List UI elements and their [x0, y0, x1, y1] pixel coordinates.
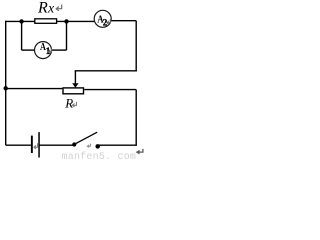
wire: battery to switch: [40, 144, 74, 146]
wire: left vertical: [5, 21, 7, 146]
wire: A1 branch right horizontal: [51, 49, 66, 51]
paragraph mark bottom right: [139, 149, 143, 152]
wire: A1 branch left horizontal: [22, 49, 35, 51]
switch lever: [76, 132, 98, 144]
paragraph mark inside A2: [107, 19, 110, 24]
wire: A1 branch left vertical: [21, 21, 23, 50]
wire: right vertical lower: [135, 90, 137, 146]
paragraph mark after R label: [72, 102, 76, 107]
wire: switch to bottom right corner: [98, 144, 137, 146]
wire: middle horizontal to rheostat: [6, 88, 63, 90]
paragraph mark inside A1: [48, 48, 51, 53]
svg-text:R: R: [64, 96, 73, 111]
rheostat R: [63, 88, 84, 94]
wire: slider horizontal: [75, 70, 137, 72]
wire: top left horizontal: [6, 20, 95, 22]
svg-text:1: 1: [46, 46, 51, 56]
wire: right vertical upper: [135, 21, 137, 71]
node: junction dot right of Rx: [64, 19, 68, 23]
battery cell: long positive plate: [38, 132, 40, 157]
node: junction dot on left vertical: [3, 86, 7, 90]
svg-text:Rx: Rx: [37, 0, 54, 17]
paragraph mark at battery: [34, 143, 38, 149]
node: junction dot left of Rx: [19, 19, 23, 23]
battery cell: short negative plate: [31, 136, 33, 153]
resistor Rx: [35, 19, 57, 24]
ammeter A1: [35, 42, 52, 59]
paragraph mark at switch: [87, 144, 90, 148]
wire: rheostat right to corner: [84, 89, 136, 91]
rheostat slider arrow: [74, 71, 76, 84]
wire: top right horizontal from A2 to corner: [112, 20, 137, 22]
wire: A1 branch right vertical: [66, 21, 68, 50]
svg-text:manfen5. com: manfen5. com: [62, 151, 137, 160]
wire: bottom left to battery: [6, 144, 31, 146]
ammeter A2: [94, 10, 111, 27]
switch contact dot: [95, 144, 100, 149]
switch pivot dot: [72, 142, 76, 146]
paragraph mark after Rx label: [56, 5, 62, 11]
